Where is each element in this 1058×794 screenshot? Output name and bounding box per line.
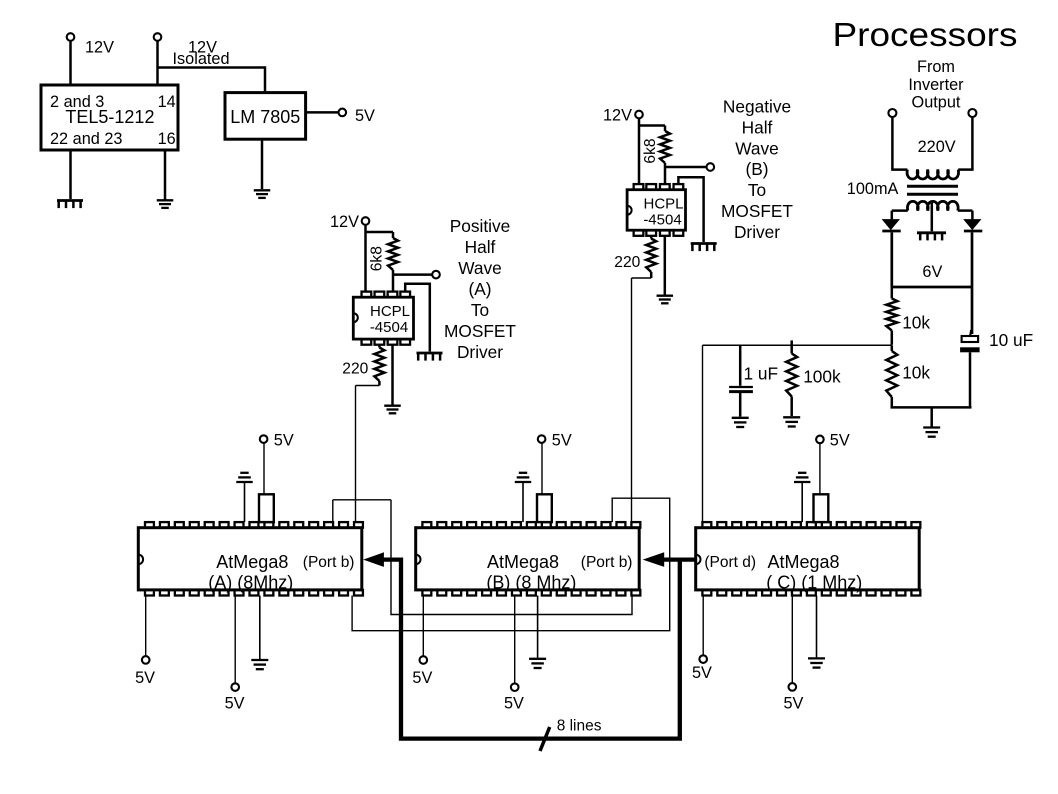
svg-text:8 lines: 8 lines xyxy=(557,717,602,734)
svg-text:Half: Half xyxy=(742,117,773,137)
svg-text:AtMega8: AtMega8 xyxy=(768,552,840,572)
svg-text:MOSFET: MOSFET xyxy=(444,321,516,341)
svg-text:5V: 5V xyxy=(225,695,245,713)
svg-text:Isolated: Isolated xyxy=(173,50,230,68)
svg-text:Processors: Processors xyxy=(833,16,1018,53)
svg-text:10k: 10k xyxy=(902,312,930,332)
svg-text:Wave: Wave xyxy=(458,258,502,278)
svg-text:Half: Half xyxy=(465,237,496,257)
svg-text:10k: 10k xyxy=(902,362,930,382)
svg-text:5V: 5V xyxy=(552,431,572,449)
svg-text:100mA: 100mA xyxy=(847,180,899,198)
svg-text:5V: 5V xyxy=(830,432,850,450)
svg-text:-4504: -4504 xyxy=(643,211,681,228)
svg-text:(B): (B) xyxy=(745,159,768,179)
svg-text:Negative: Negative xyxy=(723,97,791,117)
svg-text:(A) (8Mhz): (A) (8Mhz) xyxy=(208,572,293,592)
svg-text:10 uF: 10 uF xyxy=(989,330,1033,350)
svg-text:5V: 5V xyxy=(412,669,432,687)
svg-text:(Port b): (Port b) xyxy=(303,554,355,571)
svg-text:6k8: 6k8 xyxy=(642,138,659,163)
svg-text:5V: 5V xyxy=(135,669,155,687)
svg-text:5V: 5V xyxy=(504,695,524,713)
svg-text:(Port b): (Port b) xyxy=(581,554,633,571)
svg-text:To: To xyxy=(471,300,489,320)
svg-text:5V: 5V xyxy=(274,431,294,449)
svg-text:Positive: Positive xyxy=(450,216,511,236)
svg-text:1 uF: 1 uF xyxy=(744,363,779,383)
svg-text:100k: 100k xyxy=(803,367,841,387)
svg-text:5V: 5V xyxy=(355,107,375,125)
svg-text:MOSFET: MOSFET xyxy=(721,201,793,221)
svg-text:Output: Output xyxy=(912,93,961,111)
svg-text:Driver: Driver xyxy=(457,342,503,362)
svg-text:(Port d): (Port d) xyxy=(704,554,756,571)
svg-text:AtMega8: AtMega8 xyxy=(216,552,288,572)
svg-text:To: To xyxy=(748,180,766,200)
svg-text:16: 16 xyxy=(158,130,176,148)
svg-text:6V: 6V xyxy=(922,263,942,281)
svg-text:(A): (A) xyxy=(468,279,491,299)
svg-text:Inverter: Inverter xyxy=(908,76,964,94)
svg-text:( C) (1 Mhz): ( C) (1 Mhz) xyxy=(766,572,862,592)
svg-text:5V: 5V xyxy=(784,695,804,713)
svg-text:12V: 12V xyxy=(85,39,114,57)
svg-text:LM 7805: LM 7805 xyxy=(230,107,300,127)
svg-text:Wave: Wave xyxy=(735,138,779,158)
svg-text:From: From xyxy=(917,58,955,76)
svg-text:12V: 12V xyxy=(603,107,632,125)
svg-text:-4504: -4504 xyxy=(370,319,408,336)
svg-text:6k8: 6k8 xyxy=(368,246,385,271)
svg-text:5V: 5V xyxy=(692,664,712,682)
svg-text:220: 220 xyxy=(614,254,640,271)
svg-text:HCPL: HCPL xyxy=(370,303,410,320)
svg-text:Driver: Driver xyxy=(734,222,780,242)
svg-text:22 and 23: 22 and 23 xyxy=(50,130,122,148)
svg-text:12V: 12V xyxy=(330,213,359,231)
svg-text:AtMega8: AtMega8 xyxy=(487,552,559,572)
svg-text:(B) (8 Mhz): (B) (8 Mhz) xyxy=(486,572,576,592)
svg-text:220: 220 xyxy=(342,360,368,377)
svg-text:220V: 220V xyxy=(918,138,956,156)
svg-text:14: 14 xyxy=(158,93,176,111)
svg-text:TEL5-1212: TEL5-1212 xyxy=(65,107,154,127)
svg-text:HCPL: HCPL xyxy=(643,196,683,213)
